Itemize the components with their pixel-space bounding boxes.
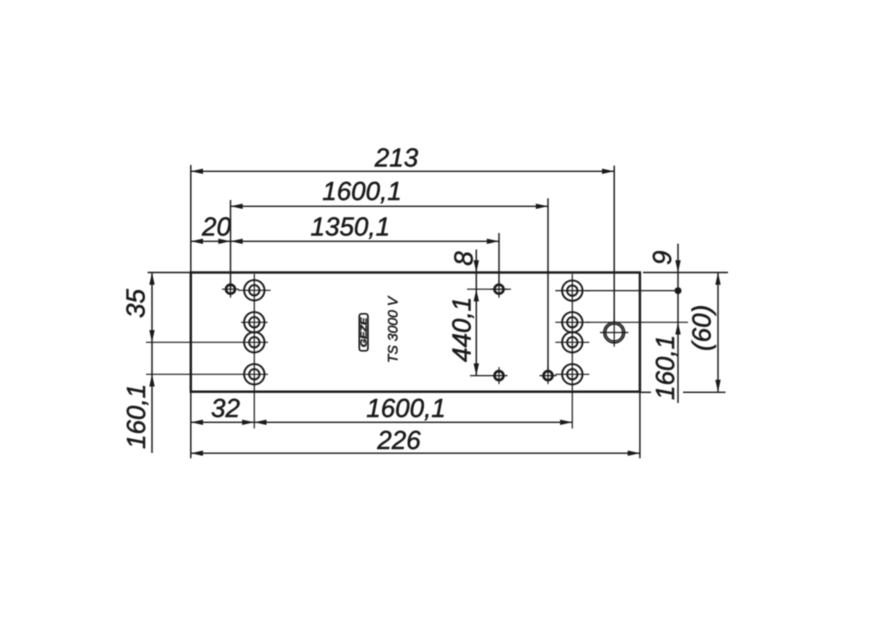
extension line right edge above	[643, 272, 728, 274]
arrow 8 down	[474, 260, 479, 272]
cross hole A1 top-left	[222, 281, 239, 298]
arrow 1600,1 bottom right	[560, 420, 572, 425]
extension line plate top left	[148, 272, 191, 274]
arrow 226 right	[628, 451, 640, 456]
dim 9 / 160,1 right line	[677, 244, 679, 403]
centerline left hole column	[253, 274, 255, 429]
arrow 440,1 up	[474, 289, 479, 301]
spindle circle	[600, 318, 628, 346]
dim 8 / 440,1 line	[475, 250, 477, 376]
extension line x=614 spindle	[613, 166, 615, 322]
svg-text:1600,1: 1600,1	[322, 176, 402, 206]
extension line x=230.5	[230, 200, 232, 289]
arrow 1350,1 right	[487, 239, 499, 244]
hole C1	[555, 280, 589, 300]
extension line row 374 left	[146, 373, 268, 375]
arrow 213 left	[191, 169, 203, 174]
dim 226 line	[191, 452, 640, 454]
centerline right hole column	[571, 274, 573, 429]
dim 35 / 160,1 left line	[151, 273, 153, 454]
dim 1600,1 top line	[231, 205, 549, 207]
extension line left edge above	[190, 165, 192, 273]
plate outline	[191, 273, 640, 392]
arrow 32 left	[191, 420, 203, 425]
extension row2 right	[586, 321, 688, 323]
arrow 160,1 left up	[149, 374, 154, 386]
arrow 440,1 down	[474, 363, 479, 375]
arrow 9 down	[675, 260, 680, 272]
dim 32 and bottom 1600,1 line	[191, 421, 573, 423]
svg-text:9: 9	[647, 251, 677, 265]
extension row1 to dot	[586, 290, 676, 292]
arrow 35 down	[149, 330, 154, 342]
arrow 1350,1 left	[231, 239, 243, 244]
extension line row 342 left	[146, 341, 268, 343]
dim (60) line	[717, 273, 719, 392]
extension line right plate edge below	[639, 392, 641, 458]
arrow 226 left	[191, 451, 203, 456]
arrow 1600,1 top right	[536, 204, 548, 209]
cross hole D2	[491, 367, 508, 384]
svg-text:213: 213	[374, 143, 419, 173]
hole B4	[244, 364, 264, 384]
svg-text:20: 20	[201, 212, 231, 242]
svg-text:1350,1: 1350,1	[311, 212, 391, 242]
arrow 1600,1 bottom left	[254, 420, 266, 425]
arrow 213 right	[602, 169, 614, 174]
cross hole D3	[540, 367, 557, 384]
svg-text:32: 32	[211, 393, 240, 423]
svg-text:TS 3000 V: TS 3000 V	[385, 295, 401, 363]
svg-text:35: 35	[121, 289, 151, 318]
extension line x=548	[547, 198, 549, 371]
arrow 20 left	[191, 239, 203, 244]
svg-text:GEZE: GEZE	[358, 317, 368, 347]
GEZE logo	[358, 314, 368, 351]
hole C2	[555, 312, 589, 332]
arrow 1600,1 top left	[231, 204, 243, 209]
hole B3	[244, 332, 264, 352]
extension tick row 289	[467, 288, 511, 290]
svg-text:226: 226	[376, 425, 421, 455]
arrow (60) down	[715, 380, 720, 392]
dim 20 and 1350,1 line	[191, 240, 499, 242]
arrow 35 up	[149, 273, 154, 285]
svg-text:160,1: 160,1	[650, 335, 680, 400]
extension line left edge below	[190, 392, 192, 458]
arrow 20 right	[218, 239, 230, 244]
hole C3	[555, 332, 589, 352]
extension line x=499	[498, 233, 500, 285]
extension tick row 375.6	[470, 375, 491, 377]
hole B1	[238, 280, 271, 300]
cross hole D1	[491, 281, 508, 298]
arrow 160,1 right up	[675, 322, 680, 334]
svg-text:160,1: 160,1	[121, 384, 151, 449]
hole C4	[555, 364, 589, 384]
svg-text:(60): (60)	[687, 305, 717, 351]
dot 9 / 160,1 junction	[675, 287, 682, 294]
extension line right edge below	[641, 391, 651, 393]
hole B2	[241, 312, 268, 332]
arrow 32 right	[242, 420, 254, 425]
svg-text:8: 8	[449, 251, 479, 266]
svg-text:440,1: 440,1	[447, 297, 477, 362]
svg-text:1600,1: 1600,1	[366, 393, 446, 423]
arrow (60) up	[715, 273, 720, 285]
dim 213 line	[191, 170, 614, 172]
